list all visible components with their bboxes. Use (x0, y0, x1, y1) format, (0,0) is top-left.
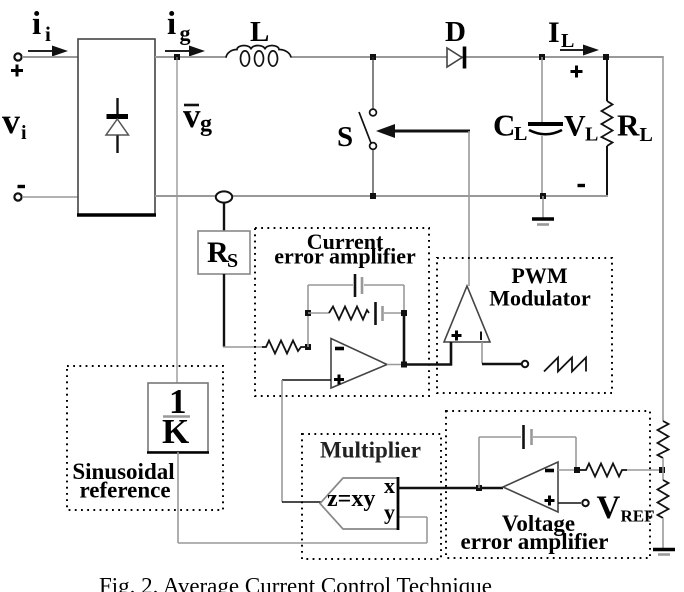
op-amp U2 voltage error (503, 462, 558, 512)
sinusoidal reference box (67, 366, 223, 510)
svg-text:S: S (337, 121, 353, 153)
junction C_L node (539, 54, 545, 60)
wire bottom left (22, 196, 78, 198)
label R_L (617, 108, 653, 147)
wire resistor to divider (627, 469, 663, 471)
resistor R_S box (198, 231, 250, 274)
wire switch upper (372, 57, 374, 109)
svg-text:PWM: PWM (511, 263, 567, 288)
svg-text:L: L (585, 124, 598, 146)
junction i_g node (174, 54, 180, 60)
junction feedback right mid (401, 310, 407, 316)
wire multiplier z vertical (281, 380, 283, 502)
svg-text:Fig. 2. Average Current Contr: Fig. 2. Average Current Control Techniqu… (99, 574, 492, 592)
multiplier box (302, 434, 441, 559)
wire U2 feedback left (478, 437, 480, 488)
junction divider mid (659, 467, 665, 473)
label C_L (493, 108, 527, 146)
svg-text:V: V (597, 490, 621, 526)
inductor L (226, 46, 291, 67)
wire PWM plus leg (450, 342, 453, 366)
capacitor C_L (528, 124, 563, 134)
svg-text:REF: REF (621, 507, 655, 526)
svg-text:L: L (561, 30, 574, 52)
block 1/K (147, 382, 209, 453)
wire switch lower (372, 150, 374, 196)
arrow i_g (165, 46, 205, 57)
junction U1 output (401, 362, 407, 368)
junction R_L node (603, 54, 609, 60)
svg-text:i: i (21, 122, 27, 144)
label + input (11, 65, 23, 77)
control arrow to switch (376, 124, 470, 138)
wire R_S to resistor (223, 346, 263, 348)
junction ground node (540, 193, 546, 199)
label v_g (183, 96, 212, 137)
wire sensor to R_S (223, 202, 225, 231)
resistor feedback (329, 307, 369, 320)
terminal ramp (522, 361, 528, 367)
wire feedback mid right (384, 312, 404, 314)
current sensor (216, 191, 232, 202)
svg-text:L: L (250, 16, 269, 48)
wire divider middle (662, 458, 664, 480)
wire y input (399, 516, 427, 518)
bridge rectifier (77, 39, 156, 215)
wire bottom main (155, 195, 608, 197)
wire feedback right lower (403, 313, 406, 365)
junction feedback left mid (305, 310, 311, 316)
label I_L (548, 16, 574, 52)
svg-text:K: K (162, 412, 189, 451)
wire feedback mid left (308, 312, 329, 314)
junction switch node (370, 54, 376, 60)
wire y riser (426, 517, 428, 543)
wire C_L lower (541, 136, 543, 196)
junction switch bottom (370, 193, 376, 199)
label - output (578, 184, 586, 187)
svg-text:R: R (617, 108, 640, 143)
capacitor feedback mid (376, 302, 383, 325)
wire feedback top right (364, 284, 404, 286)
sawtooth waveform (544, 358, 586, 372)
wire multiplier z horizontal (282, 501, 321, 503)
wire feedback top left (308, 284, 353, 286)
svg-text:C: C (493, 108, 515, 143)
svg-text:i: i (167, 6, 176, 42)
wire divider to ground (662, 518, 664, 548)
switch S (359, 109, 376, 149)
op-amp U1 current error (331, 339, 387, 389)
wire x output (398, 487, 503, 490)
wire R_S down (223, 274, 225, 347)
svg-text:error amplifier: error amplifier (461, 529, 609, 554)
label V_L (564, 110, 598, 146)
junction minus input (305, 344, 311, 350)
diode D (447, 47, 465, 69)
wire U2 minus input (558, 469, 578, 471)
wire U2 plus input (558, 502, 581, 504)
svg-text:z=xy: z=xy (327, 486, 375, 512)
current error amplifier box (255, 228, 429, 396)
svg-text:x: x (384, 473, 395, 498)
svg-text:i: i (32, 6, 41, 42)
svg-text:Modulator: Modulator (489, 286, 591, 311)
wire U2 feedback right (575, 437, 577, 470)
PWM modulator box (437, 258, 612, 393)
svg-text:S: S (227, 250, 238, 272)
label V_REF (597, 490, 655, 526)
label i_i (32, 6, 51, 46)
wire U2 feedback top right (533, 436, 576, 438)
wire top left (22, 56, 78, 58)
wire right vertical (662, 56, 664, 421)
junction U2 minus (574, 467, 580, 473)
wire PWM ramp leg (482, 342, 521, 364)
wire control vertical (468, 131, 470, 286)
resistor divider lower (658, 480, 669, 518)
wire feedback left vertical (307, 285, 309, 347)
resistor current input (262, 341, 308, 354)
svg-text:R: R (207, 236, 229, 269)
wire U1 plus input (282, 379, 331, 381)
bridge diode (106, 98, 129, 153)
wire top main (155, 56, 227, 58)
svg-text:v: v (2, 101, 20, 141)
resistor R_L (602, 57, 613, 196)
svg-text:V: V (564, 110, 586, 143)
wire feedback right upper (403, 285, 405, 313)
arrow I_L (560, 45, 599, 56)
ground divider (653, 550, 675, 555)
svg-text:reference: reference (79, 478, 170, 503)
terminal - input (14, 193, 21, 200)
comparator PWM (444, 286, 490, 342)
svg-text:D: D (445, 16, 466, 48)
resistor divider upper (658, 421, 669, 458)
ground (532, 196, 554, 225)
resistor voltage feedback (577, 464, 627, 477)
label - input (18, 185, 26, 188)
svg-text:y: y (384, 500, 395, 525)
wire U1 output (387, 364, 404, 366)
wire bottom reference (178, 542, 427, 544)
svg-text:Multiplier: Multiplier (320, 438, 421, 463)
wire top main right of inductor (291, 56, 663, 58)
svg-text:L: L (640, 124, 653, 146)
wire U1 output to PWM (404, 363, 452, 366)
svg-text:I: I (548, 16, 560, 49)
terminal + input (14, 53, 21, 60)
svg-text:v: v (183, 96, 201, 135)
wire C_L upper (541, 57, 543, 122)
label v_i (2, 101, 27, 144)
capacitor feedback top (355, 274, 362, 297)
wire v_g vertical (176, 57, 178, 383)
voltage error amplifier box (446, 411, 650, 558)
svg-text:g: g (200, 111, 212, 137)
svg-text:i: i (45, 22, 51, 46)
capacitor U2 feedback (524, 425, 532, 449)
junction x output (476, 485, 482, 491)
wire 1/K down (177, 452, 179, 543)
svg-text:g: g (180, 21, 191, 46)
label i_g (167, 6, 191, 46)
svg-text:L: L (514, 123, 527, 145)
wire U2 feedback top left (479, 436, 521, 438)
svg-text:error amplifier: error amplifier (274, 244, 416, 269)
terminal V_REF (582, 500, 588, 506)
multiplier block z=xy (320, 473, 398, 530)
label + output (571, 66, 583, 78)
arrow i_i (28, 46, 68, 57)
